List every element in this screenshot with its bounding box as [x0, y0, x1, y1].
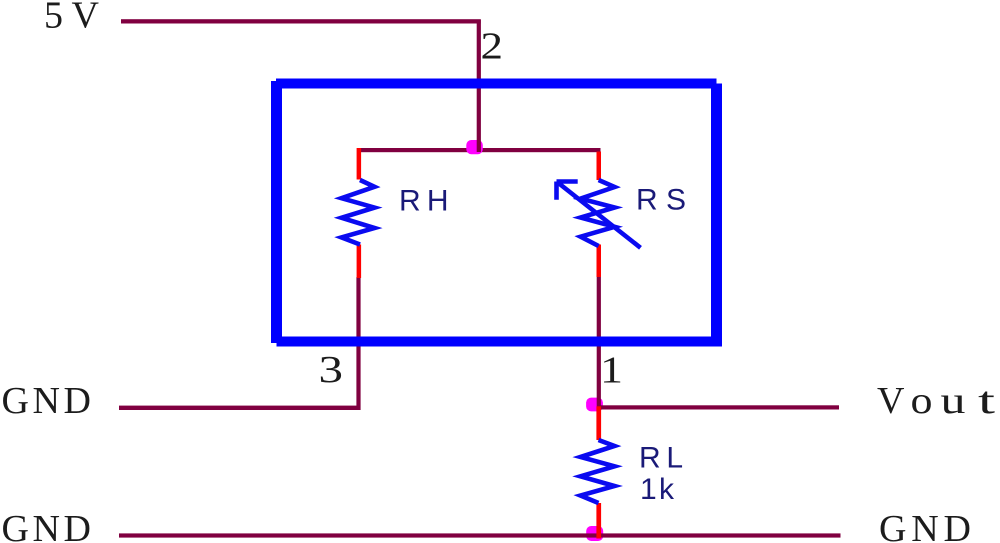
- node junction dot bottom GND: [586, 526, 603, 541]
- wire 5V horizontal: [121, 19, 481, 23]
- terminal stub RH top (red): [357, 148, 362, 180]
- svg-text:GND: GND: [2, 380, 92, 422]
- wire GND bottom horizontal: [119, 533, 841, 537]
- label Vout: [877, 380, 996, 422]
- terminal stub RS top (red): [597, 152, 602, 181]
- svg-text:RS: RS: [636, 184, 686, 217]
- wire pin 3 vertical: [356, 277, 360, 410]
- resistor RH zigzag: [342, 180, 375, 245]
- svg-text:GND: GND: [2, 508, 92, 543]
- svg-text:GND: GND: [879, 508, 971, 543]
- wire pin 1 vertical: [597, 277, 601, 407]
- resistor RL zigzag: [581, 440, 615, 503]
- component body box bottom side: [277, 337, 723, 347]
- svg-text:2: 2: [481, 26, 504, 68]
- wire 5V vertical drop: [477, 20, 481, 153]
- potentiometer RS zigzag: [581, 180, 615, 246]
- svg-text:1k: 1k: [640, 473, 675, 506]
- svg-text:u: u: [941, 380, 966, 422]
- potentiometer RS arrow: [557, 182, 641, 248]
- wire interior node horizontal: [357, 148, 601, 152]
- svg-text:3: 3: [319, 349, 344, 391]
- terminal stub RH bottom (red): [357, 245, 362, 279]
- terminal stub RS bottom (red): [597, 245, 602, 278]
- terminal stub RL top (red): [596, 406, 601, 440]
- component body box top side: [276, 79, 717, 89]
- wire Vout horizontal: [597, 405, 839, 409]
- svg-text:t: t: [978, 380, 996, 422]
- svg-text:1: 1: [600, 350, 623, 392]
- svg-text:V: V: [877, 380, 905, 422]
- svg-text:o: o: [911, 380, 933, 422]
- svg-text:RH: RH: [399, 184, 449, 217]
- svg-text:5V: 5V: [44, 0, 100, 36]
- wire GND mid horizontal: [119, 406, 361, 410]
- node junction dot top (net 2): [466, 140, 483, 154]
- component body box right side: [711, 84, 722, 344]
- terminal stub RL bottom (red): [596, 503, 601, 539]
- svg-text:RL: RL: [639, 442, 683, 475]
- node junction dot Vout: [586, 398, 603, 412]
- component body box (blue rectangle) left side: [271, 81, 282, 343]
